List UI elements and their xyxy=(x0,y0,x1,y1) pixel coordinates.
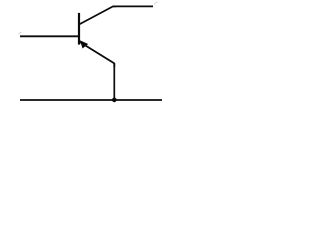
junction dot xyxy=(112,98,117,103)
wire collector xyxy=(113,5,153,7)
terminal mark left xyxy=(19,33,22,35)
transistor Q1 xyxy=(79,6,116,67)
terminal mark top right xyxy=(155,3,158,5)
wire emitter xyxy=(113,63,115,100)
wire base lead xyxy=(20,35,79,37)
wire bottom rail xyxy=(20,99,162,101)
